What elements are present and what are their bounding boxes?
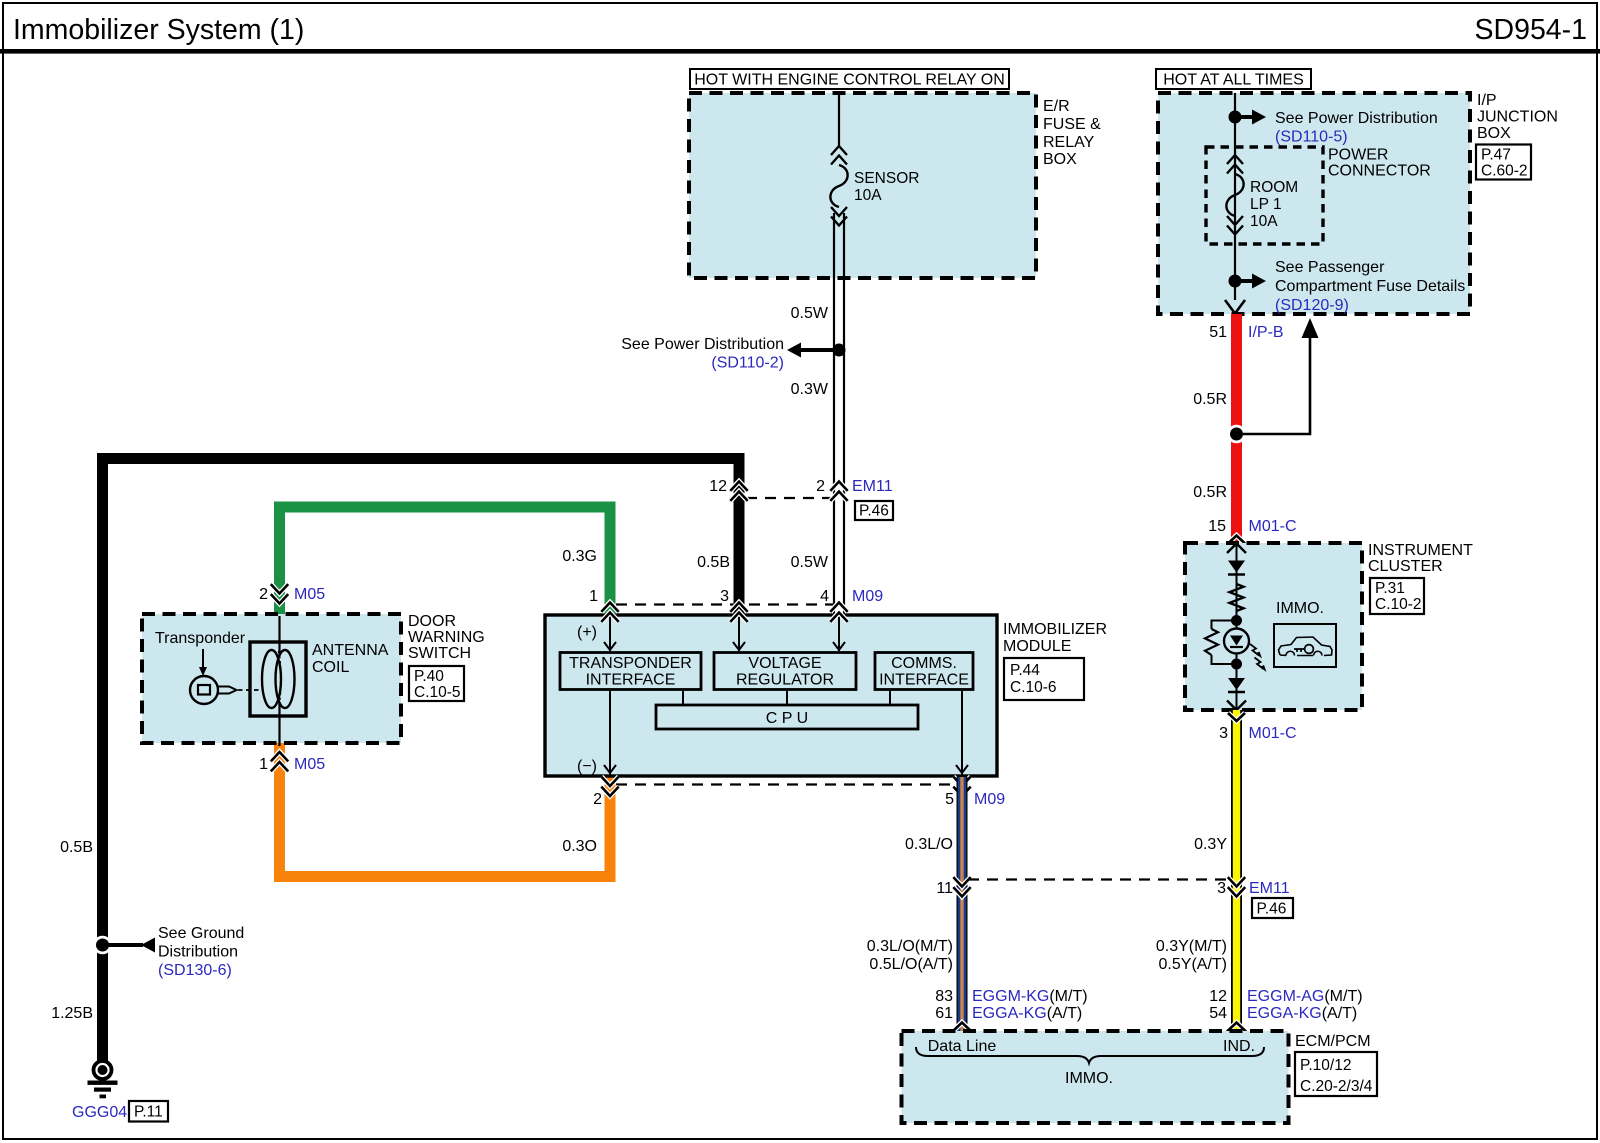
label P.47 C.60-2 box <box>1476 145 1531 180</box>
svg-text:Immobilizer System (1): Immobilizer System (1) <box>13 14 304 46</box>
svg-text:COMMS.: COMMS. <box>891 655 957 672</box>
comms interface box <box>875 653 973 690</box>
connector EM11 bottom dashed line <box>968 878 1231 880</box>
svg-text:IMMO.: IMMO. <box>1065 1070 1113 1087</box>
svg-text:JUNCTION: JUNCTION <box>1477 109 1558 126</box>
svg-text:C.10-6: C.10-6 <box>1010 679 1057 696</box>
pin 11 chevron <box>953 877 970 886</box>
svg-text:M01-C: M01-C <box>1249 725 1297 742</box>
antenna coil box <box>250 642 306 716</box>
svg-text:C.20-2/3/4: C.20-2/3/4 <box>1300 1078 1373 1095</box>
svg-text:CLUSTER: CLUSTER <box>1368 558 1443 575</box>
svg-text:SENSOR: SENSOR <box>854 170 919 187</box>
svg-text:0.5B: 0.5B <box>697 554 730 571</box>
svg-text:EGGA-KG(A/T): EGGA-KG(A/T) <box>972 1005 1082 1022</box>
svg-text:DOOR: DOOR <box>408 613 456 630</box>
ground symbol GGG04 <box>94 1061 112 1079</box>
antenna coil dotted seam <box>279 651 281 707</box>
svg-text:0.3W: 0.3W <box>791 381 829 398</box>
svg-text:0.3Y: 0.3Y <box>1194 836 1227 853</box>
svg-text:2: 2 <box>259 586 268 603</box>
svg-text:COIL: COIL <box>312 659 349 676</box>
svg-text:P.40: P.40 <box>414 668 444 685</box>
LED parallel resistor branch <box>1212 621 1237 665</box>
svg-text:10A: 10A <box>1250 213 1278 230</box>
svg-text:EM11: EM11 <box>1249 880 1290 897</box>
diode 1 <box>1228 561 1245 573</box>
arrow See Power Distribution SD110-2 <box>800 348 833 352</box>
ECM/PCM box fill <box>902 1031 1289 1123</box>
cpu box <box>656 705 918 729</box>
svg-text:SWITCH: SWITCH <box>408 645 471 662</box>
junction dot SD110-2 <box>833 344 846 357</box>
svg-text:2: 2 <box>816 478 825 495</box>
wire into sensor fuse <box>838 93 840 147</box>
instrument cluster fill <box>1185 543 1362 710</box>
module line pin4 to voltage regulator <box>838 615 840 651</box>
svg-text:54: 54 <box>1209 1005 1227 1022</box>
svg-text:C.60-2: C.60-2 <box>1481 163 1528 180</box>
svg-text:SD954-1: SD954-1 <box>1475 14 1587 46</box>
svg-text:ECM/PCM: ECM/PCM <box>1295 1033 1371 1050</box>
label P.11 box <box>129 1101 168 1122</box>
svg-text:(SD120-9): (SD120-9) <box>1275 297 1349 314</box>
svg-text:P.31: P.31 <box>1375 580 1405 597</box>
svg-text:MODULE: MODULE <box>1003 638 1071 655</box>
svg-text:TRANSPONDER: TRANSPONDER <box>569 655 692 672</box>
door warning switch dashed border <box>142 614 401 743</box>
svg-text:3: 3 <box>1219 725 1228 742</box>
arrow See Ground Distribution SD130-6 <box>103 943 144 947</box>
svg-text:EGGM-AG(M/T): EGGM-AG(M/T) <box>1247 988 1363 1005</box>
junction dot SD110-5 <box>1229 111 1242 124</box>
svg-text:M09: M09 <box>852 588 883 605</box>
antenna wire vertical <box>278 616 280 746</box>
svg-text:INTERFACE: INTERFACE <box>879 672 969 689</box>
svg-text:0.3L/O: 0.3L/O <box>905 836 953 853</box>
label P.10/12 C.20-2/3/4 box <box>1295 1052 1377 1096</box>
svg-text:IND.: IND. <box>1223 1038 1255 1055</box>
svg-text:0.3Y(M/T): 0.3Y(M/T) <box>1156 938 1227 955</box>
transponder key chip square <box>198 685 210 695</box>
ECM entry caret IND <box>1227 1023 1246 1032</box>
svg-text:1.25B: 1.25B <box>51 1005 93 1022</box>
svg-text:Transponder: Transponder <box>155 630 246 647</box>
svg-text:12: 12 <box>709 478 727 495</box>
wire 0.3L/O blue-orange <box>957 777 968 1031</box>
resistor 1 <box>1230 584 1244 611</box>
svg-text:IMMO.: IMMO. <box>1276 600 1324 617</box>
diode 2 <box>1228 678 1245 690</box>
label box HOT WITH ENGINE CONTROL RELAY ON <box>690 69 1009 89</box>
svg-text:0.5R: 0.5R <box>1193 391 1227 408</box>
svg-text:VOLTAGE: VOLTAGE <box>748 655 821 672</box>
voltage regulator box <box>714 653 856 690</box>
pin 12 chevron <box>730 482 747 491</box>
junction dot SD120-9 <box>1229 275 1242 288</box>
pin 4 chevron <box>830 603 847 612</box>
svg-text:51: 51 <box>1209 324 1227 341</box>
cluster wire <box>1236 544 1238 711</box>
IP box exit arrow <box>1225 300 1245 314</box>
svg-text:61: 61 <box>935 1005 953 1022</box>
wire 0.3Y yellow <box>1231 710 1242 1031</box>
svg-text:EGGM-KG(M/T): EGGM-KG(M/T) <box>972 988 1088 1005</box>
svg-text:1: 1 <box>259 756 268 773</box>
svg-text:CONNECTOR: CONNECTOR <box>1328 163 1431 180</box>
E/R fuse box dashed border <box>689 93 1036 278</box>
pin 3 EM11 chevron <box>1228 877 1245 886</box>
svg-text:P.44: P.44 <box>1010 662 1040 679</box>
svg-text:IMMOBILIZER: IMMOBILIZER <box>1003 621 1107 638</box>
wire 0.5B black loop <box>103 459 740 1062</box>
label P.44 C.10-6 box <box>1004 658 1084 700</box>
wire 0.3O orange <box>280 743 611 877</box>
junction dot LED top <box>1231 615 1242 626</box>
svg-text:M01-C: M01-C <box>1249 518 1297 535</box>
module line VR to CPU <box>786 690 788 705</box>
immo car icon box <box>1274 624 1336 667</box>
svg-text:C.10-2: C.10-2 <box>1375 596 1422 613</box>
connector M09 top dashed line <box>616 603 833 605</box>
svg-text:BOX: BOX <box>1477 125 1511 142</box>
svg-text:12: 12 <box>1209 988 1227 1005</box>
svg-text:0.5R: 0.5R <box>1193 484 1227 501</box>
power connector dashed box <box>1206 147 1323 244</box>
svg-text:3: 3 <box>720 588 729 605</box>
svg-text:5: 5 <box>945 791 954 808</box>
module line TI to CPU <box>682 690 684 705</box>
svg-text:15: 15 <box>1208 518 1226 535</box>
svg-text:83: 83 <box>935 988 953 1005</box>
transponder arrow <box>202 649 204 668</box>
svg-text:Compartment Fuse Details: Compartment Fuse Details <box>1275 278 1465 295</box>
pin 1 chevron <box>601 603 618 612</box>
svg-text:EM11: EM11 <box>852 478 893 495</box>
label box HOT AT ALL TIMES <box>1156 69 1311 89</box>
svg-text:(SD110-5): (SD110-5) <box>1275 129 1348 146</box>
svg-text:2: 2 <box>593 791 602 808</box>
ECM brace <box>916 1047 1264 1063</box>
svg-text:POWER: POWER <box>1328 147 1388 164</box>
module line COMMS to CPU <box>889 690 891 705</box>
label P.40 C.10-5 box <box>409 666 464 701</box>
pin 2 chevron <box>830 482 847 491</box>
svg-text:M05: M05 <box>294 756 325 773</box>
immo car icon <box>1279 637 1333 656</box>
svg-text:P.10/12: P.10/12 <box>1300 1057 1351 1074</box>
pin 3 chevron <box>730 603 747 612</box>
LED emission arrows <box>1250 644 1259 656</box>
svg-text:INSTRUMENT: INSTRUMENT <box>1368 542 1473 559</box>
svg-text:P.11: P.11 <box>134 1104 163 1121</box>
transponder key circle <box>190 676 218 704</box>
svg-text:11: 11 <box>936 880 953 897</box>
svg-text:See Passenger: See Passenger <box>1275 259 1385 276</box>
svg-text:RELAY: RELAY <box>1043 134 1095 151</box>
connector EM11 dashed line <box>746 497 833 499</box>
arrow See Power Distribution SD110-5 <box>1241 115 1253 119</box>
svg-text:0.5B: 0.5B <box>60 839 93 856</box>
svg-text:4: 4 <box>820 588 829 605</box>
junction dot LED bottom <box>1231 659 1242 670</box>
svg-text:See Power Distribution: See Power Distribution <box>1275 110 1438 127</box>
svg-text:See Ground: See Ground <box>158 925 244 942</box>
cluster exit arrowhead <box>1227 701 1246 711</box>
arrow See Passenger Compartment <box>1241 279 1253 283</box>
transponder dashed link <box>238 689 264 691</box>
M05 pin 1 chevron <box>271 752 288 761</box>
svg-text:See Power Distribution: See Power Distribution <box>621 336 784 353</box>
antenna coil ellipse right <box>276 650 295 708</box>
svg-text:ROOM: ROOM <box>1250 179 1298 196</box>
svg-text:1: 1 <box>589 588 598 605</box>
label P.46 box bottom <box>1252 898 1293 918</box>
svg-text:10A: 10A <box>854 187 882 204</box>
svg-text:P.46: P.46 <box>1257 901 1287 918</box>
yellow wire top caret <box>1228 713 1245 721</box>
module line pin3 to voltage regulator <box>738 615 740 651</box>
wire 0.3G green <box>280 507 611 617</box>
M05 pin 2 chevron <box>271 584 288 593</box>
antenna coil ellipse left <box>262 650 281 708</box>
svg-text:0.5W: 0.5W <box>791 305 829 322</box>
svg-text:LP 1: LP 1 <box>1250 196 1282 213</box>
IP junction wire <box>1234 93 1236 300</box>
svg-text:I/P-B: I/P-B <box>1248 324 1284 341</box>
IP junction box fill <box>1158 93 1470 314</box>
pin 5 chevron <box>953 777 970 786</box>
ECM/PCM dashed border <box>902 1031 1289 1123</box>
svg-text:P.46: P.46 <box>859 503 889 520</box>
svg-text:0.3L/O(M/T): 0.3L/O(M/T) <box>867 938 953 955</box>
svg-text:(SD130-6): (SD130-6) <box>158 962 232 979</box>
svg-text:(−): (−) <box>577 758 597 775</box>
junction dot ground distribution <box>93 936 112 955</box>
E/R fuse box fill <box>689 93 1036 278</box>
svg-text:I/P: I/P <box>1477 92 1497 109</box>
wire 0.5W white (two lines) <box>833 213 835 615</box>
svg-text:Data Line: Data Line <box>928 1038 997 1055</box>
transponder interface box <box>560 653 701 690</box>
svg-text:M05: M05 <box>294 586 325 603</box>
module line COMMS to pin5 <box>961 690 963 775</box>
svg-text:HOT WITH ENGINE CONTROL RELAY: HOT WITH ENGINE CONTROL RELAY ON <box>694 72 1005 89</box>
svg-text:GGG04: GGG04 <box>72 1104 127 1121</box>
ECM entry caret data line <box>953 1023 972 1032</box>
IP junction box dashed border <box>1158 93 1470 314</box>
fuse ROOM LP 1 10A <box>1227 155 1243 164</box>
svg-text:3: 3 <box>1217 880 1226 897</box>
pin 2 bottom chevron <box>601 777 618 786</box>
wire 0.5R red <box>1231 314 1242 542</box>
junction dot red branch <box>1227 425 1246 444</box>
svg-text:0.3G: 0.3G <box>562 548 597 565</box>
red wire end caret <box>1228 536 1245 544</box>
branch line to up arrow <box>1243 338 1310 434</box>
svg-text:ANTENNA: ANTENNA <box>312 642 389 659</box>
svg-text:Distribution: Distribution <box>158 944 238 961</box>
svg-text:E/R: E/R <box>1043 98 1070 115</box>
immobilizer module box <box>545 615 997 776</box>
LED triangle <box>1230 636 1243 646</box>
svg-text:REGULATOR: REGULATOR <box>736 672 834 689</box>
label P.31 C.10-2 box <box>1370 578 1424 614</box>
svg-text:C P U: C P U <box>766 710 808 727</box>
svg-text:INTERFACE: INTERFACE <box>586 672 676 689</box>
svg-text:P.47: P.47 <box>1481 147 1511 164</box>
svg-text:FUSE &: FUSE & <box>1043 116 1101 133</box>
svg-text:0.5W: 0.5W <box>791 554 829 571</box>
door warning switch box fill <box>142 614 401 743</box>
svg-text:0.3O: 0.3O <box>562 838 597 855</box>
connector M09 bottom dashed line <box>616 783 956 785</box>
svg-text:0.5Y(A/T): 0.5Y(A/T) <box>1159 956 1227 973</box>
module line pin1 to transponder interface <box>609 615 611 651</box>
transponder key blade <box>218 687 237 694</box>
svg-text:BOX: BOX <box>1043 151 1077 168</box>
title divider bar <box>0 49 1600 54</box>
svg-text:HOT AT ALL TIMES: HOT AT ALL TIMES <box>1163 72 1304 89</box>
label P.46 box top <box>855 501 893 520</box>
svg-text:(SD110-2): (SD110-2) <box>711 355 784 372</box>
LED circle <box>1224 629 1249 654</box>
svg-text:C.10-5: C.10-5 <box>414 684 461 701</box>
svg-text:(+): (+) <box>577 624 597 641</box>
svg-text:WARNING: WARNING <box>408 629 485 646</box>
instrument cluster dashed border <box>1185 543 1362 710</box>
svg-text:M09: M09 <box>974 791 1005 808</box>
svg-text:0.5L/O(A/T): 0.5L/O(A/T) <box>869 956 953 973</box>
module line TI to minus pin2 <box>609 690 611 775</box>
fuse SENSOR 10A <box>831 146 847 155</box>
cluster entry arrowhead <box>1227 544 1246 554</box>
svg-text:EGGA-KG(A/T): EGGA-KG(A/T) <box>1247 1005 1357 1022</box>
